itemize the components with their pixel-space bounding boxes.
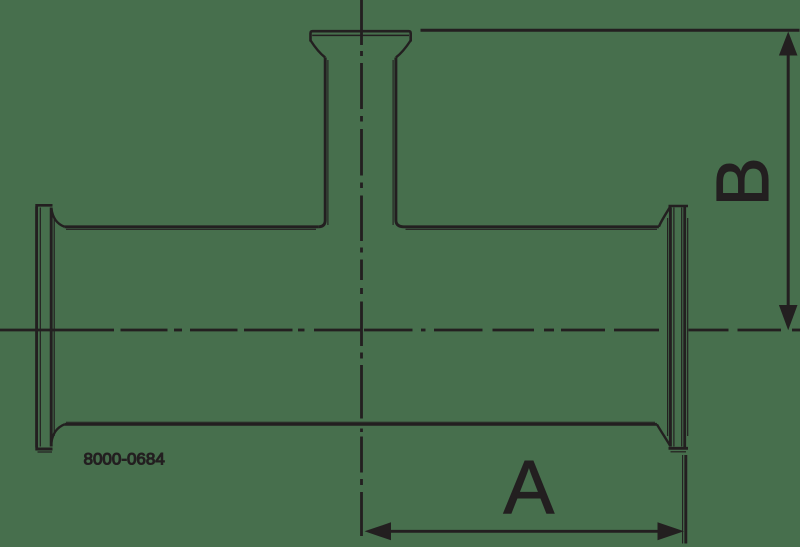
top branch ferrule flange: [311, 31, 411, 57]
vertical centerline (branch axis): [360, 0, 363, 536]
dimension A line: [380, 530, 670, 533]
extension line right (for A): [684, 455, 687, 544]
dimension A arrow right: [658, 522, 685, 540]
svg-text:B: B: [701, 157, 784, 206]
branch tube right wall: [393, 58, 404, 227]
run pipe bottom wall: [65, 422, 657, 424]
svg-text:8000-0684: 8000-0684: [84, 449, 165, 468]
svg-text:A: A: [504, 446, 555, 531]
right ferrule flange: [657, 206, 688, 452]
extension line top (for B): [421, 29, 800, 32]
dimension B arrow down: [779, 305, 798, 330]
left ferrule flange: [35, 205, 64, 452]
dimension A arrow left: [365, 522, 392, 540]
branch tube left wall: [318, 58, 328, 227]
dimension B line: [787, 50, 790, 315]
run pipe top wall: [65, 227, 659, 230]
dimension B arrow up: [779, 32, 798, 56]
horizontal centerline (run axis): [0, 329, 800, 332]
